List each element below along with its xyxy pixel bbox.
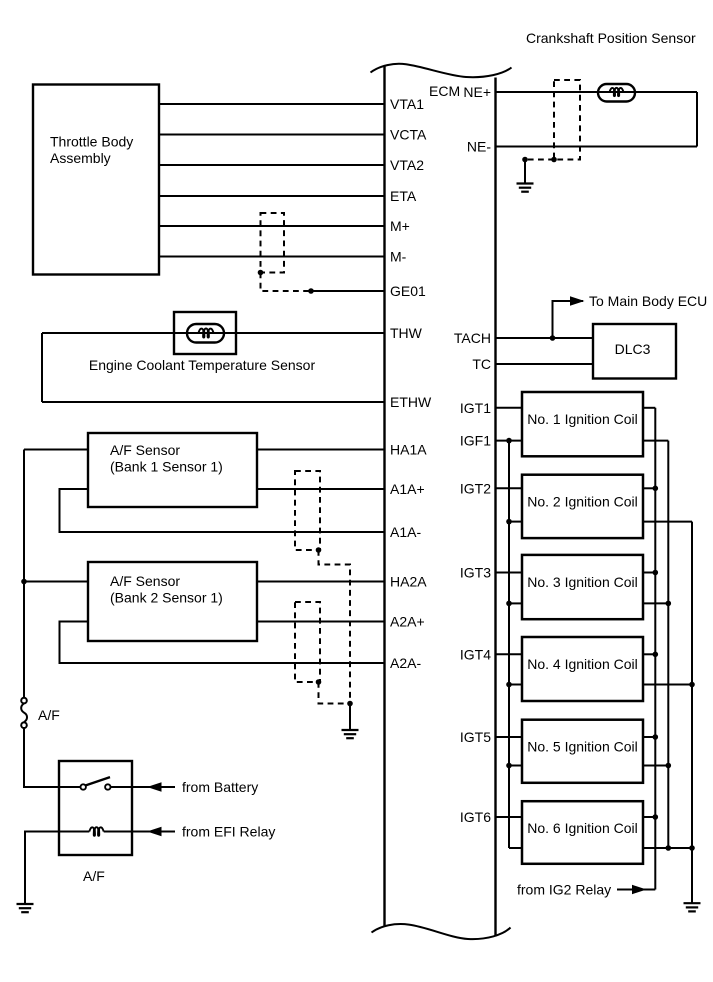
relay switch blade — [86, 777, 110, 785]
svg-text:TC: TC — [472, 356, 491, 372]
pin label TC — [472, 356, 491, 372]
No. 5 ignition coil label — [527, 739, 638, 755]
pin label IGT4 — [460, 646, 491, 662]
wire HA1A — [257, 449, 385, 451]
ground bus C wire — [691, 522, 693, 903]
wire coil1 +B pin — [643, 407, 655, 409]
pin label A2A- — [390, 655, 421, 671]
junction dot IGF coil2 — [506, 519, 512, 525]
NE shield drain wire (dashed) — [525, 159, 554, 161]
wire IGF coil2 stub — [509, 521, 522, 523]
wire coil2 +B stub — [643, 487, 655, 489]
svg-text:A1A-: A1A- — [390, 524, 421, 540]
svg-text:Assembly: Assembly — [50, 150, 111, 166]
svg-text:No. 4 Ignition Coil: No. 4 Ignition Coil — [527, 656, 638, 672]
pin label GE01 — [390, 283, 426, 299]
A/F sensor bank 1 box — [88, 433, 257, 507]
wire A1A- — [60, 489, 385, 532]
svg-text:IGT2: IGT2 — [460, 480, 491, 496]
wire TACH — [496, 337, 594, 339]
svg-text:from EFI Relay: from EFI Relay — [182, 824, 275, 840]
svg-text:VCTA: VCTA — [390, 127, 427, 143]
ground NE shield — [517, 184, 534, 192]
shield around NE wires — [554, 80, 580, 160]
junction dot on GE01 wire — [308, 288, 314, 294]
DLC3 label — [615, 341, 651, 357]
wire IGT1 — [496, 407, 523, 409]
pin label IGT6 — [460, 809, 491, 825]
wire THW — [42, 332, 385, 334]
fuse A/F — [21, 698, 27, 728]
svg-text:GE01: GE01 — [390, 283, 426, 299]
pickup coil crankshaft sensor — [598, 84, 635, 102]
svg-text:NE+: NE+ — [463, 84, 491, 100]
svg-text:NE-: NE- — [467, 139, 491, 155]
wire GE01 — [311, 290, 385, 292]
wire IGF1 — [496, 440, 523, 442]
from Battery label — [182, 779, 258, 795]
svg-text:No. 3 Ignition Coil: No. 3 Ignition Coil — [527, 574, 638, 590]
A/F sensor bank 2 label — [110, 573, 223, 606]
svg-text:IGT3: IGT3 — [460, 565, 491, 581]
wire IGT4 — [496, 653, 523, 655]
shield A2A drain wire (dashed) — [319, 682, 351, 704]
svg-text:Engine Coolant Temperature Sen: Engine Coolant Temperature Sensor — [89, 357, 316, 373]
pin label HA1A — [390, 442, 427, 458]
pin label THW — [390, 325, 423, 341]
pin label IGF1 — [460, 433, 491, 449]
svg-text:No. 1 Ignition Coil: No. 1 Ignition Coil — [527, 411, 638, 427]
junction dot shield drains common node — [347, 701, 353, 707]
throttle body assembly label — [50, 134, 133, 167]
junction dot shield A2A drain — [316, 679, 322, 685]
junction dot ground bus coil4 — [689, 682, 695, 688]
No. 6 ignition coil label — [527, 820, 638, 836]
junction dot NE shield drain — [551, 157, 557, 163]
svg-text:A/F: A/F — [38, 707, 60, 723]
No. 4 ignition coil box — [522, 637, 643, 701]
To Main Body ECU label — [589, 293, 707, 309]
wire NE+ — [496, 91, 698, 93]
pin label IGT1 — [460, 400, 491, 416]
wire coil5 +B stub — [643, 736, 655, 738]
svg-text:M-: M- — [390, 249, 407, 265]
wire VTA2 — [159, 164, 385, 166]
wire IGF coil6 stub — [509, 847, 522, 849]
wire VCTA — [159, 134, 385, 136]
from IG2 Relay label — [517, 882, 611, 898]
svg-text:HA2A: HA2A — [390, 574, 427, 590]
pin label VTA2 — [390, 157, 424, 173]
pin label IGT5 — [460, 729, 491, 745]
junction dot IGF coil3 — [506, 601, 512, 607]
wire coil1 ground pin — [643, 440, 668, 442]
ECM band bottom break wave — [372, 924, 511, 939]
relay coil wire right segment — [104, 831, 132, 833]
svg-text:ECM: ECM — [429, 83, 460, 99]
junction dot IGF bus top — [506, 438, 512, 444]
svg-text:(Bank 1 Sensor 1): (Bank 1 Sensor 1) — [110, 459, 223, 475]
pin label NE- — [467, 139, 491, 155]
svg-text:from Battery: from Battery — [182, 779, 258, 795]
wire from EFI Relay — [132, 831, 175, 833]
throttle body assembly box — [33, 85, 159, 275]
pin label HA2A — [390, 574, 427, 590]
pin label M+ — [390, 218, 410, 234]
junction dot IGF coil4 — [506, 682, 512, 688]
pin label IGT3 — [460, 565, 491, 581]
junction dot bus B join coil6 — [666, 845, 672, 851]
junction dot ground bus coil5 — [666, 763, 672, 769]
wire NE shield to ground — [524, 160, 526, 183]
svg-text:M+: M+ — [390, 218, 410, 234]
arrowhead to Main Body ECU — [570, 296, 585, 305]
junction dot shield A1A drain — [316, 547, 322, 553]
svg-text:No. 2 Ignition Coil: No. 2 Ignition Coil — [527, 494, 638, 510]
from EFI Relay label — [182, 824, 275, 840]
A/F sensor bank 1 label — [110, 442, 223, 475]
relay coil squiggle — [89, 827, 103, 836]
svg-text:IGT6: IGT6 — [460, 809, 491, 825]
svg-text:IGF1: IGF1 — [460, 433, 491, 449]
wire VTA1 — [159, 103, 385, 105]
wire IGT6 — [496, 816, 523, 818]
svg-text:A/F: A/F — [83, 868, 105, 884]
relay coil wire left segment — [59, 831, 89, 833]
junction dot +B coil5 — [653, 734, 659, 740]
relay switch contacts — [81, 784, 111, 789]
pickup coil squiggle — [610, 88, 624, 96]
junction dot NE drain to ground — [522, 157, 528, 163]
junction dot +B coil3 — [653, 570, 659, 576]
No. 3 ignition coil label — [527, 574, 638, 590]
No. 6 ignition coil box — [522, 801, 643, 864]
svg-text:THW: THW — [390, 325, 423, 341]
shield around A1A wires — [295, 471, 320, 550]
pin label ETHW — [390, 394, 432, 410]
ECM connector band left edge — [383, 67, 385, 926]
svg-text:IGT5: IGT5 — [460, 729, 491, 745]
arrowhead from IG2 relay — [632, 885, 647, 894]
A/F sensor bank 2 box — [88, 562, 257, 641]
wire coil2 ground pin — [643, 521, 692, 523]
relay label A/F — [83, 868, 105, 884]
junction dot +B coil6 — [653, 814, 659, 820]
wire from Battery — [132, 786, 175, 788]
junction dot +B coil2 — [653, 486, 659, 492]
wire coil6 ground pin — [643, 847, 692, 849]
wire coil4 +B stub — [643, 653, 655, 655]
A/F relay box — [59, 761, 132, 855]
No. 1 ignition coil box — [522, 392, 643, 456]
svg-text:A/F Sensor: A/F Sensor — [110, 442, 180, 458]
wire IGF coil5 stub — [509, 765, 522, 767]
wire M+ — [159, 225, 385, 227]
wire coil5 ground stub — [643, 765, 668, 767]
wire A2A- — [60, 622, 385, 664]
shield around A2A wires — [295, 602, 320, 682]
wire left A/F bus upper — [23, 450, 25, 699]
svg-text:Crankshaft Position Sensor: Crankshaft Position Sensor — [526, 30, 696, 46]
+B bus wire from IG2 relay — [654, 408, 656, 890]
pin label TACH — [454, 330, 491, 346]
svg-text:ETA: ETA — [390, 188, 417, 204]
relay switch contact wires — [59, 786, 132, 788]
wire to Main Body ECU — [553, 301, 584, 338]
wire from IG2 relay feed — [617, 889, 655, 891]
wire A2A+ — [257, 621, 385, 623]
No. 1 ignition coil label — [527, 411, 638, 427]
engine coolant temperature sensor label — [89, 357, 316, 373]
ECM connector band right edge — [494, 78, 496, 937]
pin label M- — [390, 249, 407, 265]
wire shield node to ground — [349, 704, 351, 730]
shield M drain wire (dashed) — [261, 273, 312, 292]
pin label ETA — [390, 188, 417, 204]
thermistor coil squiggle ECT — [198, 329, 213, 338]
ground relay coil — [17, 904, 34, 912]
pin label A1A- — [390, 524, 421, 540]
No. 4 ignition coil label — [527, 656, 638, 672]
wire relay coil to ground — [25, 832, 59, 904]
wire bank1 left feed — [24, 449, 88, 451]
junction dot TACH branch — [550, 335, 556, 341]
pin label NE+ — [463, 84, 491, 100]
svg-text:To Main Body ECU: To Main Body ECU — [589, 293, 707, 309]
svg-text:Throttle Body: Throttle Body — [50, 134, 133, 150]
svg-text:TACH: TACH — [454, 330, 491, 346]
junction dot +B coil4 — [653, 652, 659, 658]
ECM band top break wave — [371, 64, 512, 77]
pin label A2A+ — [390, 614, 425, 630]
junction dot ground bus coil3 — [666, 601, 672, 607]
svg-text:VTA1: VTA1 — [390, 96, 424, 112]
No. 2 ignition coil label — [527, 494, 638, 510]
svg-text:ETHW: ETHW — [390, 394, 432, 410]
pin label VCTA — [390, 127, 427, 143]
svg-text:HA1A: HA1A — [390, 442, 427, 458]
wire IGT2 — [496, 487, 523, 489]
wire NE- — [496, 146, 698, 148]
wire IGF coil4 stub — [509, 684, 522, 686]
junction dot left bus bank2 — [21, 579, 27, 585]
svg-text:A2A-: A2A- — [390, 655, 421, 671]
wire coil4 ground stub — [643, 684, 692, 686]
No. 3 ignition coil box — [522, 555, 643, 619]
ground bus B wire — [667, 441, 669, 848]
svg-text:IGT4: IGT4 — [460, 646, 491, 662]
crankshaft position sensor title — [526, 30, 696, 46]
wire IGT5 — [496, 736, 523, 738]
fuse label A/F — [38, 707, 60, 723]
wire HA2A — [257, 581, 385, 583]
wire crankshaft sensor return — [696, 92, 698, 147]
svg-text:A2A+: A2A+ — [390, 614, 425, 630]
wire fuse to relay — [24, 728, 59, 788]
pin label A1A+ — [390, 481, 425, 497]
ground ignition coils — [684, 903, 701, 911]
shield A1A drain wire (dashed) — [319, 550, 351, 704]
engine coolant temperature sensor element box — [174, 312, 236, 354]
wire ETA — [159, 195, 385, 197]
No. 2 ignition coil box — [522, 475, 643, 538]
svg-text:VTA2: VTA2 — [390, 157, 424, 173]
arrowhead from EFI Relay — [147, 827, 162, 836]
pin label VTA1 — [390, 96, 424, 112]
junction dot IGF coil5 — [506, 763, 512, 769]
svg-text:No. 6 Ignition Coil: No. 6 Ignition Coil — [527, 820, 638, 836]
wire A1A+ — [257, 488, 385, 490]
shield around M+ M- wires — [261, 213, 285, 273]
svg-text:DLC3: DLC3 — [615, 341, 651, 357]
svg-text:(Bank 2 Sensor 1): (Bank 2 Sensor 1) — [110, 590, 223, 606]
ground shield drain — [342, 730, 359, 738]
wire coil3 ground stub — [643, 602, 668, 604]
wire coil6 +B stub — [643, 816, 655, 818]
wire IGF coil3 stub — [509, 602, 522, 604]
pin label IGT2 — [460, 480, 491, 496]
No. 5 ignition coil box — [522, 720, 643, 783]
svg-text:IGT1: IGT1 — [460, 400, 491, 416]
junction dot shield M drain corner — [258, 270, 264, 276]
wire bank2 left feed — [24, 581, 88, 583]
thermistor pill ECT sensor — [187, 324, 224, 343]
wire M- — [159, 256, 385, 258]
arrowhead from Battery — [147, 782, 162, 791]
svg-text:from IG2 Relay: from IG2 Relay — [517, 882, 611, 898]
svg-text:A1A+: A1A+ — [390, 481, 425, 497]
IGF bus wire — [508, 441, 510, 848]
DLC3 box — [593, 324, 676, 379]
wire coil3 +B stub — [643, 572, 655, 574]
wire IGT3 — [496, 572, 523, 574]
svg-text:A/F Sensor: A/F Sensor — [110, 573, 180, 589]
ECM label — [429, 83, 460, 99]
wire TC — [496, 363, 594, 365]
engine coolant temperature sensor body left side — [41, 333, 43, 402]
svg-text:No. 5 Ignition Coil: No. 5 Ignition Coil — [527, 739, 638, 755]
wire ETHW — [42, 401, 385, 403]
junction dot bus C join coil6 — [689, 845, 695, 851]
